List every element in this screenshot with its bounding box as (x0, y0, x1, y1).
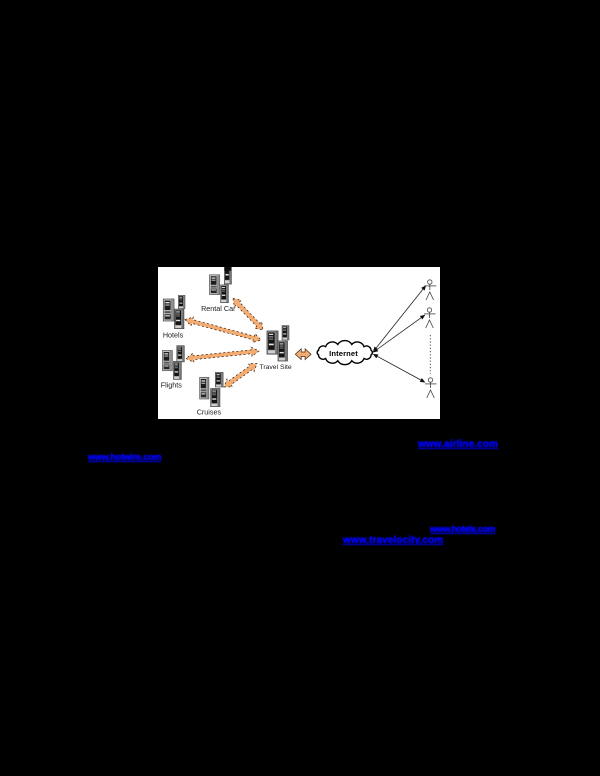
server group: Rental Car (210, 262, 232, 303)
server group: Cruises (200, 372, 223, 406)
hyperlink: www.travelocity.com (343, 535, 443, 546)
arrow: travel site to flights (186, 347, 259, 362)
request arrow: internet to user 2 (374, 315, 425, 352)
figure: travel web-services diagram (158, 267, 440, 419)
request arrow: internet to user 1 (374, 286, 426, 351)
svg-text:Flights: Flights (161, 381, 183, 390)
request arrow: internet to user 3 (374, 354, 425, 382)
internet cloud (317, 341, 372, 365)
hyperlink: www.hotels.com (430, 524, 495, 534)
hyperlink: www.airline.com (418, 439, 498, 450)
arrow: travel site to internet (295, 349, 311, 360)
svg-text:Cruises: Cruises (197, 408, 222, 417)
arrow: travel site to cruises (224, 364, 257, 388)
server group: Hotels (163, 295, 185, 328)
arrow: travel site to hotels (185, 317, 261, 343)
user actor 2 (424, 308, 436, 328)
ellipsis: dotted line between users (429, 335, 431, 374)
server group: Travel Site (267, 326, 289, 362)
svg-text:Internet: Internet (329, 349, 358, 358)
user actor 1 (424, 280, 436, 300)
arrow: travel site to rental car (233, 299, 263, 331)
svg-text:Rental Car: Rental Car (201, 304, 236, 313)
svg-text:Travel Site: Travel Site (259, 364, 291, 371)
user actor 3 (425, 378, 437, 398)
svg-text:Hotels: Hotels (163, 331, 184, 340)
hyperlink: www.hotwire.com (88, 452, 161, 462)
server group: Flights (163, 346, 185, 380)
